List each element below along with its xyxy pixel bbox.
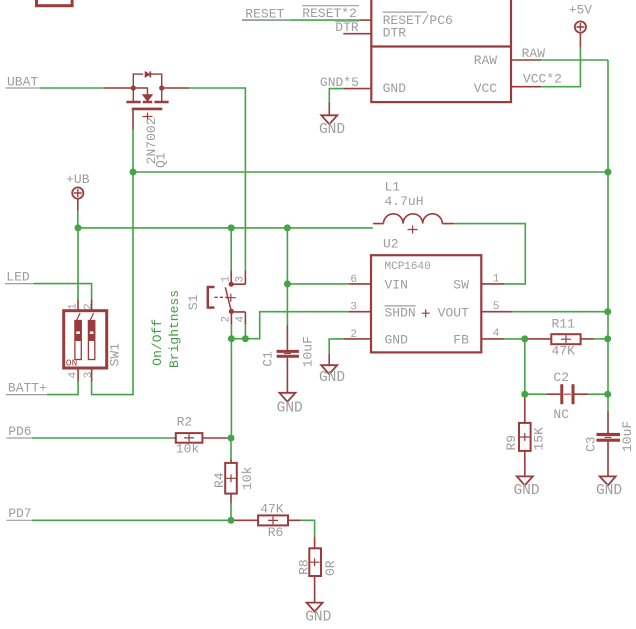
junction VIN tap — [284, 280, 291, 287]
svg-text:R6: R6 — [268, 525, 284, 540]
wire x133 vertical to BATT+ — [92, 172, 133, 395]
wire R6 to R8 — [301, 520, 315, 536]
svg-text:R4: R4 — [212, 472, 227, 488]
capacitor C1 plates — [277, 350, 299, 353]
svg-text:NC: NC — [553, 407, 569, 422]
switch SW1 slider 2 track — [88, 321, 94, 360]
label PD6 underline — [7, 437, 33, 439]
wire S1 pin2 down — [230, 325, 232, 339]
pin U2 right stubs — [481, 284, 511, 339]
svg-text:47K: 47K — [552, 344, 576, 359]
wire FB down to C2 — [524, 339, 526, 396]
label DTR overline — [335, 20, 359, 22]
transistor Q1 origin cross — [143, 113, 153, 121]
transistor Q1 bulk arrow — [143, 95, 153, 102]
svg-text:SW: SW — [453, 277, 469, 292]
switch S1 contact dots — [229, 282, 234, 287]
svg-text:3: 3 — [83, 372, 95, 379]
svg-text:C2: C2 — [553, 370, 569, 385]
pin S1 pin3 — [231, 271, 245, 285]
switch S1 origin cross — [226, 294, 236, 302]
svg-text:ON: ON — [66, 358, 77, 369]
pin R9 leads — [524, 396, 526, 476]
wire C2 row — [525, 393, 608, 395]
svg-text:FB: FB — [453, 332, 469, 347]
junction S1 pin1 rail — [228, 224, 235, 231]
wire +UB stem lower — [77, 211, 79, 228]
node Q1 source dot — [131, 85, 136, 90]
svg-text:4: 4 — [68, 371, 80, 378]
junction VOUT rail — [604, 308, 611, 315]
label PD7 underline — [7, 519, 33, 521]
pin U1 RAW stub — [511, 59, 541, 61]
label LED underline — [5, 283, 34, 285]
wire RAW net — [541, 59, 608, 61]
svg-text:RESET: RESET — [245, 7, 284, 22]
transistor Q1 source/drain verticals — [133, 88, 161, 101]
junction S1 pin2 bottom — [228, 335, 235, 342]
svg-text:BATT+: BATT+ — [8, 381, 47, 396]
label RESET/PC6 overline — [383, 11, 427, 13]
svg-text:R8: R8 — [296, 559, 311, 575]
svg-text:MCP1640: MCP1640 — [385, 261, 431, 273]
junction gate rail x133 — [130, 169, 137, 176]
label SHDN overline — [385, 305, 416, 307]
svg-text:PD7: PD7 — [8, 506, 31, 521]
wire S1 to U2 SHDN — [231, 312, 348, 339]
label UBAT underline — [6, 87, 41, 89]
frame top-left partial box — [37, 0, 73, 6]
pin U2 left stubs — [343, 284, 371, 339]
module U1 box — [371, 0, 511, 102]
junction C2 right — [604, 391, 611, 398]
svg-text:2: 2 — [350, 329, 357, 341]
junction RAW rail x608 — [605, 169, 612, 176]
switch SW1 box — [64, 311, 107, 368]
svg-text:15K: 15K — [532, 427, 547, 451]
label BATT+ underline — [6, 394, 47, 396]
wire PD6 net — [32, 437, 174, 439]
wire VIN — [287, 283, 348, 285]
svg-text:GND: GND — [319, 122, 345, 138]
pin R2 leads — [174, 437, 231, 439]
pin +UB stem — [77, 199, 79, 211]
junction S1 pin4 bottom — [242, 335, 249, 342]
svg-text:VOUT: VOUT — [438, 305, 469, 320]
svg-text:5: 5 — [493, 301, 500, 313]
wire VOUT rail — [512, 311, 609, 313]
switch S1 actuator bracket — [208, 287, 215, 308]
transistor Q1 2N7002 body diode loop — [133, 74, 161, 88]
transistor Q1 channel bars — [126, 101, 168, 104]
transistor Q1 gate bar — [132, 108, 163, 111]
svg-text:Q1: Q1 — [154, 152, 169, 168]
junction PD6 node — [228, 435, 235, 442]
wire S1 pin1 up — [230, 228, 232, 271]
resistor R8 body — [309, 548, 321, 576]
svg-text:R11: R11 — [552, 317, 576, 332]
pin GND symbol lead top — [328, 103, 330, 116]
svg-text:C1: C1 — [261, 351, 276, 367]
wire R2 to R4 — [230, 438, 232, 461]
wire rail to SW1 pin1 — [77, 228, 79, 300]
svg-text:GND: GND — [319, 370, 345, 386]
pin R8 leads — [314, 537, 316, 603]
supply +UB symbol — [72, 187, 83, 198]
capacitor C2 plates — [560, 384, 563, 404]
resistor R11 body — [551, 334, 580, 344]
svg-text:SHDN: SHDN — [385, 305, 416, 320]
ground U2 pin2 symbol — [321, 365, 337, 374]
pin U1 GND stub — [344, 88, 372, 90]
pin C2 leads — [547, 393, 589, 395]
wire L1 to U2 SW — [454, 224, 525, 284]
svg-text:DTR: DTR — [383, 25, 407, 40]
svg-text:UBAT: UBAT — [7, 74, 38, 89]
svg-text:GND: GND — [305, 609, 331, 625]
svg-text:On/Off: On/Off — [150, 319, 165, 366]
module U1 divider — [371, 45, 511, 47]
switch S1 dashed link — [215, 296, 228, 298]
label RESET*2 overline — [302, 5, 359, 7]
pin L1 leads — [373, 223, 454, 225]
op-amp U2 origin cross — [422, 309, 430, 317]
svg-text:3: 3 — [234, 276, 246, 283]
svg-text:GND: GND — [513, 483, 539, 499]
svg-text:4.7uH: 4.7uH — [385, 194, 424, 209]
junction PD7 node — [228, 517, 235, 524]
resistor R9 body — [519, 423, 531, 451]
svg-text:3: 3 — [350, 302, 357, 314]
svg-text:GND*5: GND*5 — [320, 75, 359, 90]
ground C3 symbol — [600, 476, 616, 485]
inductor L1 coil — [384, 214, 443, 224]
wire GND*5 net — [329, 89, 343, 103]
svg-text:+5V: +5V — [569, 3, 593, 18]
svg-text:GND: GND — [596, 483, 622, 499]
node Q1 drain dot — [159, 85, 164, 90]
pin Q1 gate — [132, 110, 134, 130]
svg-text:GND: GND — [385, 332, 409, 347]
svg-text:VCC*2: VCC*2 — [523, 71, 562, 86]
svg-text:+UB: +UB — [66, 172, 90, 187]
pin S1 pin4 — [231, 312, 245, 325]
wire LED to SW1 pin2 — [34, 284, 92, 300]
wire battery rail y228 — [78, 227, 373, 229]
svg-text:DTR: DTR — [335, 20, 359, 35]
svg-text:GND: GND — [277, 400, 303, 416]
wire BATT+ to SW1 pin4 — [47, 382, 78, 395]
svg-text:10k: 10k — [176, 442, 200, 457]
inductor L1 origin cross — [408, 226, 418, 234]
wire R11 right — [594, 338, 608, 340]
pin U1 RESET stub — [359, 19, 371, 21]
wire RESET net — [242, 19, 359, 21]
svg-text:Brightness: Brightness — [167, 290, 182, 368]
pin R4 leads — [230, 460, 232, 504]
wire R4 to PD7 — [230, 504, 232, 521]
supply +5V symbol — [575, 21, 586, 32]
svg-text:10uF: 10uF — [301, 336, 316, 367]
capacitor C3 plates — [597, 433, 621, 436]
wire U2 GND pin2 — [329, 339, 343, 354]
svg-text:1: 1 — [220, 276, 232, 283]
svg-text:VIN: VIN — [385, 277, 408, 292]
resistor R4 body — [225, 463, 237, 494]
svg-text:R2: R2 — [177, 415, 193, 430]
switch S1 arm — [225, 287, 231, 311]
ground C1 symbol — [279, 393, 295, 402]
label RESET underline — [242, 19, 291, 21]
pin Q1 source — [104, 87, 133, 89]
switch SW1 slider 1 track — [75, 321, 81, 360]
wire S1 pin4 down — [244, 325, 246, 339]
junction R11 right — [604, 335, 611, 342]
transistor Q1 body diode symbol — [145, 72, 150, 77]
pin S1 pin2 — [230, 311, 232, 324]
pin S1 pin1 — [230, 271, 232, 285]
svg-text:1: 1 — [68, 303, 80, 310]
svg-text:U2: U2 — [383, 237, 399, 252]
junction C1 rail — [284, 224, 291, 231]
transistor Q1 bulk connection — [133, 88, 147, 95]
pin SW1 top pins — [78, 300, 92, 311]
svg-text:47K: 47K — [260, 502, 284, 517]
svg-text:SW1: SW1 — [107, 343, 122, 367]
svg-text:1: 1 — [493, 274, 500, 286]
svg-text:S1: S1 — [186, 294, 201, 310]
pin +5V stem — [579, 33, 581, 47]
svg-text:RESET*2: RESET*2 — [302, 6, 357, 21]
svg-text:10k: 10k — [240, 466, 255, 490]
wire FB left — [504, 338, 528, 340]
junction +UB rail — [75, 224, 82, 231]
pin C3 leads — [607, 411, 609, 477]
ground R9 symbol — [517, 476, 533, 485]
wire UBAT net — [40, 87, 104, 89]
op-amp U2 box MCP1640 — [371, 255, 481, 352]
pin Q1 drain — [162, 87, 189, 89]
wire rail GATE/RAW y172 — [133, 171, 608, 173]
pin U1 DTR stub — [343, 33, 371, 35]
svg-text:RAW: RAW — [522, 46, 546, 61]
svg-text:LED: LED — [6, 269, 30, 284]
pin U2 gnd lead — [328, 354, 330, 366]
wire PD7 net — [32, 519, 232, 521]
svg-text:L1: L1 — [385, 180, 401, 195]
svg-text:4: 4 — [493, 328, 500, 340]
junction C2 left — [521, 391, 528, 398]
wire VCC to +5V — [541, 47, 580, 87]
svg-text:4: 4 — [235, 316, 247, 323]
svg-text:GND: GND — [383, 81, 407, 96]
resistor R6 body — [258, 515, 288, 525]
svg-text:10uF: 10uF — [620, 421, 635, 452]
pin R6 leads — [232, 519, 301, 521]
svg-text:VCC: VCC — [474, 81, 498, 96]
pin U1 VCC stub — [511, 86, 541, 88]
svg-text:6: 6 — [350, 274, 357, 286]
pin SW1 bottom pins — [78, 368, 92, 382]
svg-text:RAW: RAW — [474, 53, 498, 68]
svg-text:0R: 0R — [323, 560, 338, 576]
svg-text:2: 2 — [221, 316, 233, 323]
pin R11 leads — [528, 338, 594, 340]
wire Q1 drain to S1 pin3 — [189, 88, 245, 271]
wire right vertical x608 — [607, 60, 609, 411]
svg-text:2: 2 — [83, 303, 95, 310]
svg-text:R9: R9 — [504, 435, 519, 451]
junction FB node — [521, 335, 528, 342]
resistor R2 body — [176, 433, 203, 443]
ground R8 symbol — [307, 603, 323, 612]
svg-text:C3: C3 — [583, 436, 598, 452]
wire C1 vertical — [286, 228, 288, 325]
wire S1 to PD6 node — [230, 339, 232, 438]
wire Q1 gate down — [132, 130, 134, 172]
pin C1 leads — [286, 325, 288, 393]
svg-text:PD6: PD6 — [8, 424, 31, 439]
ground GND*5 symbol — [321, 115, 337, 124]
